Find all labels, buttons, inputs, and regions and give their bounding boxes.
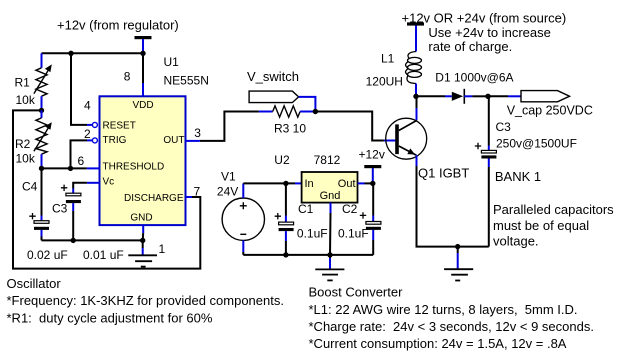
node C1/In junction [283,181,288,186]
svg-text:TRIG: TRIG [103,135,127,146]
svg-text:Paralleled capacitors: Paralleled capacitors [493,202,614,217]
wire OUT pin 3 to R3 [186,112,259,141]
node rail/reset junction [68,51,73,56]
svg-text:C4: C4 [22,180,38,194]
svg-text:R3 10: R3 10 [274,121,306,135]
svg-text:120UH: 120UH [366,74,403,88]
svg-text:Gnd: Gnd [320,190,341,202]
svg-text:NE555N: NE555N [164,74,209,88]
svg-text:voltage.: voltage. [493,234,539,249]
wire TRIG pin 2 branch [71,138,98,169]
svg-text:must be of equal: must be of equal [493,218,589,233]
svg-text:THRESHOLD: THRESHOLD [103,161,165,172]
svg-text:OUT: OUT [163,135,184,146]
resistor R2 (potentiometer) [34,110,52,168]
svg-text:D1 1000v@6A: D1 1000v@6A [435,71,513,85]
resistor R3 [259,106,316,117]
svg-text:*Frequency: 1K-3KHZ for provid: *Frequency: 1K-3KHZ for provided compone… [7,293,284,308]
power bar +12v (top left) [135,36,152,51]
net flag V_cap [488,91,570,102]
svg-text:BANK 1: BANK 1 [495,169,541,184]
svg-text:2: 2 [84,127,91,141]
svg-text:*Current consumption: 24v = 1.: *Current consumption: 24v = 1.5A, 12v = … [309,336,567,351]
wire U2 Gnd pin down [329,203,332,255]
node emitter bus/ground junction [455,244,460,249]
svg-text:V_switch: V_switch [247,69,299,84]
node R1/R2/discharge junction [39,108,44,113]
capacitor C1 [275,183,294,255]
svg-text:VDD: VDD [132,100,153,111]
svg-text:L1: L1 [381,52,395,66]
svg-text:+12v (from regulator): +12v (from regulator) [57,18,179,33]
svg-text:Out: Out [338,178,356,190]
svg-text:C3: C3 [496,120,512,134]
svg-text:Q1 IGBT: Q1 IGBT [418,166,469,181]
capacitor C3 (250v@1500UF) [475,96,497,246]
net flag V_switch [249,91,315,111]
svg-text:6: 6 [78,154,85,168]
wire V1 to U2 In [243,182,301,184]
svg-text:R2: R2 [15,137,31,151]
wire U2 Out to +12v bar [358,168,373,183]
inductor L1 [406,25,422,96]
svg-text:Vc: Vc [103,177,115,188]
svg-text:C2: C2 [342,202,358,216]
svg-text:+12v: +12v [359,147,385,161]
svg-text:GND: GND [130,212,152,223]
svg-text:C3: C3 [52,201,68,215]
node rail/VDD junction [140,51,145,56]
node L1/D1/collector junction [413,94,418,99]
ground (regulator) [315,255,344,281]
svg-text:C1: C1 [298,202,314,216]
resistor R1 (potentiometer) [34,53,52,110]
power bar +12v (regulator output) [364,165,381,168]
wire middle ground bus [243,254,373,256]
node U2 gnd/bus junction [327,252,332,257]
svg-text:Boost Converter: Boost Converter [309,285,404,300]
node C1/bus junction [283,252,288,257]
wire GND pin 1 [142,225,145,255]
svg-text:4: 4 [84,99,91,113]
node Out/C2 junction [370,181,375,186]
svg-text:Oscillator: Oscillator [7,276,62,291]
diode D1 [416,89,488,104]
node trig/threshold junction [68,166,73,171]
wire RESET pin 4 branch [71,53,97,127]
svg-text:7812: 7812 [314,153,341,167]
capacitor C2 [360,183,381,255]
op-amp U1 NE555N body [100,96,186,225]
svg-text:U2: U2 [274,153,290,167]
wire R3 to Q1 base [315,112,395,141]
svg-text:10k: 10k [16,151,36,165]
ground (output stage) [444,247,473,281]
svg-text:10k: 10k [16,93,36,107]
svg-text:7: 7 [194,185,201,199]
svg-text:0.02 uF: 0.02 uF [27,248,68,262]
svg-text:*Charge rate: 24v < 3 seconds: *Charge rate: 24v < 3 seconds, 12v < 9 s… [309,319,594,334]
svg-text:0.1uF: 0.1uF [297,227,328,241]
node GND pin/ground bus junction [140,238,145,243]
svg-text:+12v OR +24v (from source): +12v OR +24v (from source) [402,11,567,26]
regulator U2 7812 body [302,172,358,203]
wire Q1 emitter to ground bus [417,155,489,246]
svg-text:0.01 uF: 0.01 uF [83,248,124,262]
svg-text:rate of charge.: rate of charge. [428,39,512,54]
wire top rail [42,52,144,54]
svg-text:Use +24v to increase: Use +24v to increase [428,25,550,40]
svg-text:In: In [305,178,314,190]
node R2/threshold junction [39,166,44,171]
svg-text:*R1: duty cycle adjustment fo: *R1: duty cycle adjustment for 60% [7,310,213,325]
wire Vc pin to C3 [73,183,99,194]
svg-text:RESET: RESET [103,120,136,131]
svg-text:V1: V1 [221,170,236,184]
svg-text:0.1uF: 0.1uF [338,227,369,241]
transistor Q1 [386,118,427,159]
svg-text:U1: U1 [164,55,180,69]
capacitor C4 (0.02uF) [29,168,49,240]
svg-text:DISCHARGE: DISCHARGE [124,193,184,204]
wire discharge feedback loop to pin 7 [13,110,200,268]
node C3/ground bus junction [71,238,76,243]
svg-text:V_cap 250VDC: V_cap 250VDC [507,103,593,117]
capacitor C3 (0.01uF) [61,185,81,241]
svg-text:3: 3 [194,126,201,140]
power bar +12v/+24v source [407,22,424,25]
wire THRESHOLD pin 6 [42,167,100,169]
ground (555) [128,255,157,266]
svg-text:R1: R1 [15,75,31,89]
wire bottom ground bus (oscillator) [42,239,143,241]
svg-text:250v@1500UF: 250v@1500UF [496,136,577,150]
node D1/C3/flag junction [485,94,490,99]
voltage source V1 [222,183,264,255]
node R3/flag junction [313,109,318,114]
svg-text:1: 1 [159,242,166,256]
wire Q1 collector up [416,96,418,120]
svg-text:24V: 24V [217,184,238,198]
wire VDD pin 8 drop [142,53,144,96]
svg-text:*L1: 22 AWG wire 12 turns, 8 l: *L1: 22 AWG wire 12 turns, 8 layers, 5mm… [309,302,578,317]
svg-text:8: 8 [124,70,131,84]
